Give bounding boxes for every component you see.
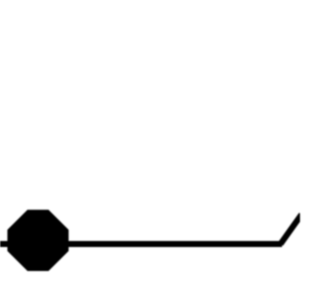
wire <box>0 241 12 247</box>
junction node <box>7 210 68 271</box>
switch arm <box>281 215 302 245</box>
wire <box>64 241 282 247</box>
